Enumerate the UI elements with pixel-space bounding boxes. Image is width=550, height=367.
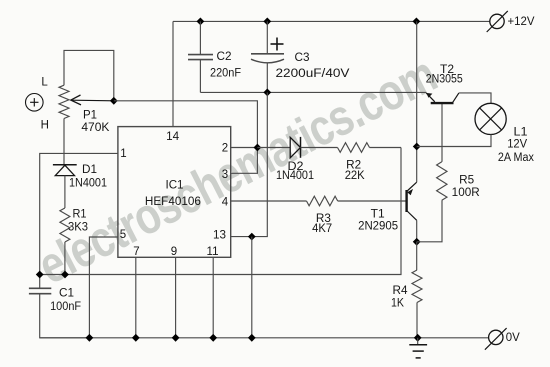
wire R1 bottom lead (64, 242, 66, 275)
wire pin 14 riser (172, 21, 174, 126)
node feedback left (36, 271, 44, 279)
svg-text:R4: R4 (393, 285, 409, 297)
resistor R3 (307, 196, 338, 206)
label D2 1N4001 (276, 170, 314, 182)
svg-text:470K: 470K (81, 122, 109, 134)
svg-text:1N4001: 1N4001 (69, 177, 107, 189)
node R1 bottom (61, 271, 69, 279)
svg-text:12V: 12V (507, 139, 527, 151)
label C3 (295, 52, 310, 64)
wire pin 4 to R3 (231, 200, 307, 202)
wire wiper to pins 2-3 (114, 101, 258, 148)
svg-text:C3: C3 (295, 52, 310, 64)
wire pin 11 ground drop (212, 257, 214, 338)
node top rail branch (413, 18, 421, 26)
svg-text:100R: 100R (452, 187, 480, 199)
diode D2 (290, 137, 300, 158)
potentiometer P1 (59, 85, 69, 118)
node pins 2-3 (254, 144, 262, 152)
node pin13 rail (248, 334, 256, 342)
wire pin 9 ground drop (175, 257, 177, 338)
wire D2 to R2 (301, 147, 338, 149)
label 2N2905 (358, 221, 398, 233)
node pin5 rail (86, 334, 94, 342)
label 2N3055 (426, 74, 463, 86)
label R5 (459, 175, 474, 187)
label 3K3 (68, 222, 88, 234)
label pin 4 (222, 197, 229, 209)
label C1 (59, 288, 74, 300)
label 470K (81, 122, 109, 134)
wire R3 to T1 base (338, 200, 406, 202)
label 0V (506, 332, 520, 344)
label IC1 (166, 180, 184, 192)
svg-text:3K3: 3K3 (68, 222, 88, 234)
label pin 1 (120, 148, 126, 160)
label T2 (440, 64, 454, 76)
svg-text:9: 9 (171, 246, 177, 258)
wire C1 bottom lead (40, 294, 90, 338)
label 2A Max (498, 152, 534, 164)
svg-text:100nF: 100nF (50, 301, 81, 313)
0V terminal (485, 328, 507, 350)
wire pins 2-3 to D2 (257, 147, 290, 149)
wire node to R5 (417, 200, 442, 242)
svg-text:14: 14 (166, 131, 180, 143)
label 100nF (50, 301, 81, 313)
label D1 (82, 164, 97, 176)
svg-text:IC1: IC1 (166, 180, 184, 192)
wire T1 emitter up (416, 147, 418, 183)
node top rail C3 (263, 18, 271, 26)
node pin11 rail (209, 334, 217, 342)
wire C2 top lead (199, 21, 201, 54)
svg-text:P1: P1 (83, 110, 97, 122)
svg-text:2A Max: 2A Max (498, 152, 534, 164)
label pin 9 (171, 246, 177, 258)
wire pin 3 (231, 148, 258, 174)
node P1 wiper (110, 97, 118, 105)
svg-text:1K: 1K (391, 298, 404, 310)
wire T1 collector down (416, 220, 418, 242)
ground (409, 338, 427, 358)
svg-text:11: 11 (207, 246, 219, 258)
svg-text:13: 13 (213, 230, 226, 242)
label pin 7 (133, 246, 139, 258)
P1 wiper arrow (71, 95, 114, 105)
label pin 13 (213, 230, 226, 242)
wire R4 bottom lead (416, 303, 418, 338)
label 2200uF/40V (276, 68, 350, 80)
svg-text:1N4001: 1N4001 (276, 170, 314, 182)
node T1 collector (413, 238, 421, 246)
resistor R5 (437, 162, 447, 201)
label 220nF (210, 68, 241, 80)
wire lamp bottom (417, 135, 491, 147)
label P1 (83, 110, 97, 122)
node lamp emitter 12V (413, 143, 421, 151)
dial indicator circle (26, 94, 44, 112)
wire +12V top rail (173, 20, 490, 22)
wire D1 to R1 (64, 176, 66, 208)
wire pin 1 (40, 153, 118, 288)
lamp L1 (475, 103, 506, 134)
+12V terminal (487, 11, 508, 32)
svg-text:D1: D1 (82, 164, 97, 176)
svg-text:3: 3 (222, 169, 228, 181)
svg-text:220nF: 220nF (210, 68, 241, 80)
capacitor C1 (29, 288, 51, 293)
svg-text:+12V: +12V (508, 16, 535, 28)
label C2 (217, 51, 232, 63)
capacitor C2 (188, 55, 213, 60)
label R2 (346, 160, 361, 172)
wire ground line (200, 91, 426, 93)
label R3 (316, 213, 331, 225)
node pin7 rail (132, 334, 140, 342)
svg-text:R1: R1 (73, 209, 87, 221)
wire T2 collector to lamp (459, 93, 491, 104)
svg-text:2N2905: 2N2905 (358, 221, 398, 233)
resistor R2 (338, 143, 370, 153)
watermark electroschematics.com (29, 45, 445, 295)
capacitor C3 (251, 54, 284, 63)
svg-text:H: H (41, 119, 49, 131)
wire pin 5 ground (89, 237, 118, 338)
wire 0V bottom rail (40, 337, 489, 339)
label HEF40106 (145, 196, 201, 208)
wire C3 bottom lead (266, 64, 268, 93)
node pin 13 (248, 233, 256, 241)
label pin 5 (120, 229, 126, 241)
label 12V (507, 139, 527, 151)
node top rail C2 (197, 18, 205, 26)
wire C2 bottom lead (199, 60, 201, 93)
svg-text:C2: C2 (217, 51, 232, 63)
node pin9 rail (172, 334, 180, 342)
wire pin 2 (231, 147, 258, 149)
wire pin 13 ground drop (251, 237, 253, 338)
wire C3 top lead (266, 21, 268, 53)
wire +12V branch down (416, 21, 418, 146)
label D2 (288, 161, 304, 173)
op-amp IC1 HEF40106 box (118, 127, 231, 258)
wire node to R4 (416, 242, 418, 270)
wire pin 13 (231, 236, 252, 238)
node ground rail (414, 334, 422, 342)
svg-text:L1: L1 (514, 127, 528, 139)
label +12V (508, 16, 535, 28)
wire R2 to feedback (370, 147, 402, 149)
svg-text:HEF40106: HEF40106 (145, 196, 201, 208)
resistor R4 (412, 270, 422, 303)
svg-text:5: 5 (120, 229, 126, 241)
svg-text:0V: 0V (506, 332, 520, 344)
wire R5 to T2 base (441, 103, 443, 162)
transistor T1 2N2905 (407, 182, 417, 220)
label L1 (514, 127, 528, 139)
svg-text:T1: T1 (371, 209, 385, 221)
diode D1 (53, 165, 77, 176)
label T1 (371, 209, 385, 221)
svg-text:4K7: 4K7 (312, 223, 332, 235)
label 22K (345, 170, 365, 182)
svg-text:C1: C1 (59, 288, 74, 300)
svg-text:1: 1 (120, 148, 126, 160)
label pin 3 (222, 169, 228, 181)
svg-text:4: 4 (222, 197, 229, 209)
svg-text:2N3055: 2N3055 (426, 74, 463, 86)
transistor T2 2N3055 (426, 93, 459, 103)
label pin 2 (222, 143, 228, 155)
label 100R (452, 187, 480, 199)
wire C3 ground drop (252, 92, 267, 236)
svg-text:2: 2 (222, 143, 228, 155)
label 4K7 (312, 223, 332, 235)
svg-text:22K: 22K (345, 170, 365, 182)
svg-text:L: L (41, 77, 48, 89)
svg-text:R5: R5 (459, 175, 474, 187)
wire feedback bus (40, 148, 401, 275)
svg-text:7: 7 (133, 246, 139, 258)
label pin 11 (207, 246, 219, 258)
resistor R1 (60, 208, 70, 242)
label R1 (73, 209, 87, 221)
label pin 14 (166, 131, 180, 143)
wire pin 7 ground drop (135, 257, 137, 338)
wire P1 top loop (64, 50, 114, 100)
label 1K (391, 298, 404, 310)
svg-text:2200uF/40V: 2200uF/40V (276, 68, 350, 80)
label H (41, 119, 49, 131)
capacitor C3 polarity + (271, 38, 284, 51)
label L (41, 77, 48, 89)
node C3 ground (263, 89, 271, 97)
label D1 1N4001 (69, 177, 107, 189)
wire P1 bottom lead (63, 119, 65, 165)
label R4 (393, 285, 409, 297)
